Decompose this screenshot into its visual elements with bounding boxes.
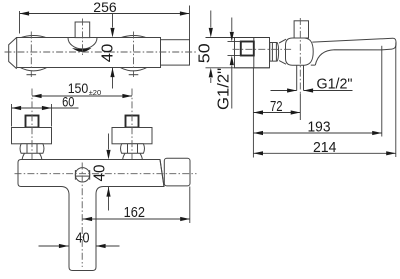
wall extension line — [252, 68, 254, 158]
dimension 40 (front view height) — [100, 14, 117, 89]
escutcheon side rect — [235, 38, 270, 68]
dimension 72 — [253, 99, 300, 115]
wall line divider — [253, 38, 255, 68]
dimension 256 — [20, 0, 190, 40]
svg-text:72: 72 — [270, 99, 283, 115]
ext pipe axis down — [299, 94, 301, 121]
dimension 150±20 — [32, 81, 132, 98]
dimension G1/2 vertical — [216, 18, 241, 111]
left end cap chamfer — [9, 37, 17, 68]
tick below valve 1 — [27, 74, 37, 76]
dimension 40 (top view depth) — [92, 134, 111, 211]
right connection centerline — [131, 89, 133, 162]
dimension 214 — [253, 140, 395, 156]
centerline horizontal top view — [15, 173, 197, 175]
svg-text:60: 60 — [62, 95, 75, 110]
handle stem — [75, 22, 90, 38]
hex nut side — [270, 43, 279, 62]
dark slot under dome — [72, 48, 92, 52]
left inlet square G1/2 — [26, 116, 39, 128]
handle stem side — [294, 21, 308, 38]
body bar — [17, 38, 161, 68]
body bar with T-stem (top view) — [18, 160, 164, 271]
centerline horizontal front view — [5, 51, 198, 53]
spout outlet piece (top view) — [164, 158, 190, 186]
dimension 162 — [83, 187, 190, 224]
ext 214 — [395, 43, 397, 158]
valve cap left (rounded square escutcheon) — [19, 36, 47, 71]
svg-text:G1/2": G1/2" — [216, 68, 233, 110]
svg-text:50: 50 — [197, 43, 214, 63]
svg-text:40: 40 — [92, 164, 109, 181]
centerline valve 1 — [30, 32, 32, 78]
svg-text:±20: ±20 — [89, 88, 101, 97]
svg-text:256: 256 — [93, 0, 117, 16]
ext 193 — [381, 46, 383, 137]
inlet square thick — [241, 42, 254, 56]
centerline stem vertical — [81, 163, 83, 268]
tick below valve 2 — [129, 74, 139, 76]
valve body side (rounded) — [286, 38, 314, 65]
dimension 60 — [12, 95, 79, 127]
centerline valve 2 — [133, 32, 135, 78]
dimension 50 — [197, 11, 270, 84]
shower outlet pipe — [297, 65, 304, 90]
svg-text:162: 162 — [124, 205, 145, 221]
centerline handle — [82, 19, 84, 57]
dimension G1/2 horizontal (pipe) — [271, 77, 353, 93]
valve cap right (rounded square escutcheon) — [119, 36, 147, 71]
cone transition — [279, 39, 286, 64]
right inlet square G1/2 — [126, 116, 139, 128]
dimension 40 (stem width) — [39, 230, 120, 248]
spout stub right — [161, 40, 190, 65]
centerline valve axis side — [233, 48, 293, 50]
svg-text:214: 214 — [313, 140, 337, 156]
svg-text:40: 40 — [100, 44, 117, 63]
right hex nut — [121, 144, 145, 154]
right eccentric flare — [123, 153, 143, 159]
left hex nut — [20, 144, 44, 154]
left escutcheon rect — [12, 128, 52, 144]
centerline handle/pipe vertical — [299, 18, 301, 94]
svg-text:G1/2": G1/2" — [317, 77, 353, 93]
svg-text:193: 193 — [308, 120, 331, 136]
spout profile — [311, 38, 396, 65]
handle dome — [68, 38, 97, 49]
svg-text:40: 40 — [76, 230, 90, 246]
left connection centerline — [31, 89, 33, 162]
slant line body end — [160, 160, 164, 187]
dimension 193 — [253, 120, 381, 136]
left eccentric flare — [22, 153, 42, 159]
right escutcheon rect — [112, 128, 152, 144]
diverter plug circle — [75, 168, 90, 182]
